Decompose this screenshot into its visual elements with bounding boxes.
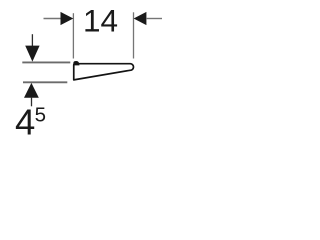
svg-text:4: 4 (15, 102, 35, 143)
width dimension: left leader tail (44, 18, 62, 20)
height dimension: lower leader stem (31, 98, 33, 107)
height dimension: up arrowhead (24, 83, 39, 98)
width dimension: left arrowhead (61, 12, 74, 25)
height dimension: down arrowhead (25, 46, 39, 62)
part profile: raised lip at left end (filled) (73, 61, 79, 65)
height dimension: top extension line (22, 61, 70, 63)
width dimension: right leader tail (146, 18, 162, 20)
height dimension: upper leader stem (31, 34, 33, 46)
svg-text:14: 14 (83, 3, 118, 39)
svg-text:5: 5 (35, 103, 46, 126)
width dimension: right arrowhead (134, 12, 147, 25)
width dimension: left extension line (72, 13, 74, 58)
height dimension: bottom extension line (23, 81, 67, 83)
part profile (tapered ramp, rounded tip) (74, 64, 134, 80)
width dimension: right extension line (133, 12, 135, 58)
